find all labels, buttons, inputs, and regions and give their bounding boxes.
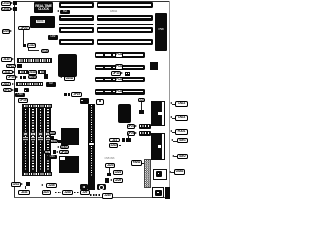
speaker icon SP1 [80, 184, 88, 191]
wire FD1 [172, 131, 175, 134]
battery BT1 dot [99, 100, 101, 102]
PCI slot 1 [95, 52, 146, 58]
SIMM socket 4 [45, 108, 52, 172]
header J10 strip A [17, 58, 53, 62]
header J16 white dot [81, 100, 83, 102]
ISA slot 2 right segment [97, 15, 154, 21]
PCI slot 3 stripe break b [111, 78, 113, 81]
label JP4 [59, 150, 69, 154]
label JP15 [127, 124, 135, 129]
arrow KB [11, 2, 13, 4]
wire J31 stem [24, 186, 27, 189]
chip U3 [61, 128, 79, 145]
arrow JP13 [121, 72, 123, 74]
SIMM 2 contacts [32, 109, 34, 172]
label J26 [46, 183, 57, 188]
JP13 pin dot b [128, 73, 129, 74]
wire CN4 [172, 117, 175, 120]
crystal Y1 oval label [41, 49, 49, 54]
arrow J12 [12, 83, 14, 85]
arrow MS [11, 8, 13, 10]
label U3 oval [60, 145, 70, 149]
arrow J9 [10, 30, 12, 32]
chip U4 [59, 156, 79, 173]
label J33 [18, 190, 30, 196]
BZ1 ring [99, 185, 103, 189]
wire USB [171, 171, 174, 174]
label J31 [11, 182, 22, 187]
wire J2 stem [140, 102, 143, 110]
PCI slot 1 stripe break a [103, 54, 105, 57]
label J9 [2, 29, 10, 33]
wire ID2 [174, 155, 177, 158]
jumper J21 b [126, 138, 131, 142]
jumper JP5 b [23, 76, 26, 79]
arrow JP15 [135, 125, 137, 127]
label ID1 right 4 [177, 138, 188, 143]
wire J29 dashes [90, 194, 101, 195]
power connector PS8 [155, 13, 166, 51]
wire J21 up [127, 134, 130, 138]
SIMM3 mid label [38, 132, 44, 137]
jumper J31 [26, 182, 30, 186]
label CN4 right 2 [175, 115, 188, 121]
label ID2 right 5 [177, 154, 188, 160]
arrow JP5 [16, 76, 18, 78]
SIMM4 mid label [45, 132, 51, 137]
keyboard port on left edge [13, 1, 17, 5]
label CN3 right 1 [175, 101, 188, 107]
SIMM1 mid label [23, 132, 29, 137]
label C12 [27, 43, 37, 48]
USB 2 glyph dot [157, 192, 159, 194]
wire J22 stub [119, 144, 122, 147]
header J12 strip [16, 82, 44, 86]
PCI slot 4 [95, 89, 146, 95]
label J12 [1, 82, 12, 87]
label MS connector [1, 7, 11, 12]
SIMM socket 1 [22, 108, 29, 172]
jumper block F2 [139, 131, 151, 136]
text 18911 [110, 9, 130, 12]
board left edge [14, 1, 15, 198]
label JP7 pill [3, 88, 12, 92]
label KB connector [1, 1, 11, 6]
arrow JP4 [56, 151, 58, 153]
label JP6 oval [28, 75, 37, 79]
label JP8 [18, 98, 28, 102]
header J11 strip right [38, 70, 46, 74]
label JP11 [50, 139, 58, 143]
edge box JP7 [14, 88, 18, 91]
chip U1 [58, 54, 78, 77]
wire C12 horiz [28, 49, 39, 52]
wire C12 stem [27, 48, 30, 51]
jumper J2 [139, 110, 144, 114]
label JP13 [111, 71, 120, 76]
arrow U3 [57, 146, 59, 148]
jumper JP11 [58, 140, 61, 143]
IDE B slot white [161, 133, 165, 161]
ISA slot 1 right segment [97, 2, 154, 8]
label JP2 [18, 26, 30, 31]
RTC chip U14 [34, 2, 53, 13]
wire J27 dashes [55, 192, 61, 193]
wire JP2 stem [22, 30, 25, 44]
label FAN1 [131, 160, 143, 166]
power header grid [144, 159, 151, 188]
IDE A sticker [158, 112, 162, 115]
board top edge [14, 1, 169, 2]
SP1 glyph [82, 186, 84, 188]
label J21 [109, 138, 120, 143]
jumper JP5 a [20, 76, 23, 79]
ISA slot 1 left segment [59, 2, 94, 8]
ISA slot 4 left segment [59, 39, 94, 45]
jumper JP9 pins a [64, 93, 67, 96]
arrow U1 [60, 76, 62, 78]
arrow J10 [12, 58, 14, 60]
jumper J21 a [122, 138, 126, 142]
label JP1 [6, 64, 16, 68]
chip U5 [118, 104, 131, 123]
chip U9 [150, 62, 158, 70]
SIMM2 mid smudge [31, 137, 35, 141]
label J11 [2, 70, 13, 75]
text tiny row2 [105, 157, 123, 160]
SIMM 3 contacts [40, 109, 42, 172]
label JP16 [127, 131, 135, 136]
label USB right 6 [174, 169, 185, 175]
ISA slot 3 right segment [97, 27, 154, 33]
SIMM4 mid smudge [46, 137, 50, 141]
arrowhead CN3 [170, 102, 172, 104]
arrowhead CN4 [170, 116, 172, 118]
SIMM socket 3 [37, 108, 44, 172]
arrowhead ID1 [171, 139, 173, 141]
arrow J11 [13, 71, 15, 73]
label J29 [80, 190, 90, 195]
label J27 [42, 190, 52, 196]
jumper JP1 block [17, 64, 22, 68]
PCI slot 1 label [115, 52, 124, 57]
jumper J23 pins [107, 173, 111, 176]
JP13 pin dot a [126, 73, 127, 74]
board right edge [169, 1, 170, 198]
label ISA black [60, 10, 70, 14]
wire J23 stem [108, 168, 111, 173]
arrow JP16 [135, 132, 137, 134]
SIMM2 mid label [30, 132, 36, 137]
wire FAN1 [142, 162, 144, 165]
SIMM 1 contacts [25, 109, 27, 172]
PCI slot 4 label [115, 89, 124, 94]
arrow J26 left [41, 184, 43, 186]
USB 1 glyph dot [158, 173, 159, 174]
thin 8-bit slot line left [59, 24, 94, 26]
mouse port on left edge [13, 7, 17, 11]
IDE connector block B [151, 133, 161, 161]
header J11 strip left [18, 70, 28, 74]
label J23 [105, 163, 115, 169]
IDE B sticker [158, 145, 162, 148]
SIMM3 mid smudge [38, 137, 42, 141]
board corner block [165, 187, 171, 199]
IDE A slot white [161, 101, 165, 127]
label U2 black [46, 82, 56, 87]
label JP5 [6, 75, 16, 79]
label J10 [1, 57, 12, 62]
F2 ticks [140, 132, 149, 134]
label J28 [62, 190, 73, 196]
jumper J25 block [105, 178, 110, 183]
PCI slot 2 stripe break a [103, 66, 105, 69]
jumper JP9 pins b [68, 93, 71, 96]
label J30 [102, 193, 113, 199]
wire CN3 [172, 103, 175, 106]
label U22 black [48, 35, 59, 40]
label U31 black [47, 155, 57, 159]
header J16 black box [80, 98, 89, 104]
label U30 black [15, 93, 25, 97]
IDE connector block A [151, 101, 161, 127]
arrowhead USB [169, 171, 171, 173]
ISA slot 4 right segment [97, 39, 154, 45]
ISA slot 3 left segment [59, 27, 94, 33]
SIMM top header [22, 104, 52, 109]
JP7 white dot [25, 90, 26, 91]
label J7 [44, 150, 51, 154]
F1 ticks [140, 125, 149, 127]
PCI slot 3 [95, 77, 146, 83]
arrowhead FD1 [170, 130, 172, 132]
PCI slot 4 stripe break a [103, 90, 105, 93]
USB 2 glyph [155, 190, 162, 197]
chip U4 sticker [60, 157, 65, 160]
jumper J7 [53, 150, 56, 154]
label J24 [113, 170, 123, 175]
PCI slot 3 label [115, 77, 124, 82]
feature connector strip J17 [88, 104, 96, 190]
SIMM socket 2 [30, 108, 37, 172]
label J25 [113, 178, 123, 184]
jumper block F1 [139, 124, 151, 129]
BIOS chip U15 [30, 16, 55, 28]
arrow ISA [57, 10, 59, 12]
PCI slot 2 [95, 65, 146, 71]
strip J17 label [88, 142, 94, 146]
wire ID1 [173, 140, 177, 143]
arrow JP1 [14, 64, 16, 66]
SIMM bottom header [22, 172, 52, 177]
capacitor C9 [23, 44, 27, 47]
label FD1 right 3 [175, 129, 188, 135]
wire J28 dashes [74, 192, 79, 193]
jumper JP7 dots block [24, 88, 29, 92]
USB port 1 [153, 169, 167, 180]
jumper JP13 block [125, 72, 130, 76]
PCI slot 3 stripe break a [103, 78, 105, 81]
thin 8-bit slot line right [97, 24, 154, 26]
USB port 2 [152, 187, 165, 198]
PCI slot 1 stripe break b [111, 54, 113, 57]
arrow J31 [21, 183, 23, 185]
USB 1 glyph [156, 171, 162, 177]
SIMM1 mid smudge [23, 137, 27, 141]
label J11 mid [28, 70, 38, 75]
ISA slot 2 left segment [59, 15, 94, 21]
jumper bracket [44, 74, 48, 79]
BIOS sticker [36, 20, 45, 24]
board bottom edge [14, 197, 170, 198]
PCI slot 4 stripe break b [111, 90, 113, 93]
PCI slot 2 label [115, 64, 124, 69]
buzzer icon BZ1 [97, 184, 106, 191]
PCI slot 2 stripe break b [111, 66, 113, 69]
label JP10 [49, 131, 57, 135]
battery BT1 [96, 99, 104, 105]
label J2 flag [138, 98, 144, 103]
SIMM 4 contacts [47, 109, 49, 172]
label J22 [109, 143, 119, 147]
arrow JP7 [12, 89, 14, 91]
label U1 [64, 76, 75, 81]
strip J17 pin dots [91, 105, 93, 177]
arrow J25 [110, 179, 112, 181]
label JP9 [71, 92, 83, 97]
jumper JP10 [51, 136, 54, 139]
arrowhead ID2 [172, 155, 174, 157]
